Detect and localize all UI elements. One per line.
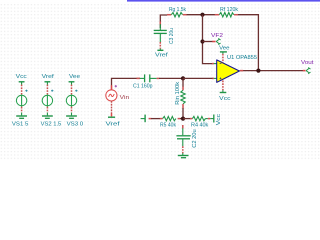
svg-text:R5 40k: R5 40k: [160, 122, 176, 128]
op-amp minus mark: [220, 63, 222, 65]
selection line top: [127, 0, 320, 2]
svg-text:Vout: Vout: [301, 60, 314, 66]
voltage source VS1 body: [16, 95, 26, 105]
svg-text:VS2 1.5: VS2 1.5: [41, 122, 62, 128]
junction top node: [200, 13, 204, 17]
resistor R5: [149, 116, 183, 120]
junction noninverting node: [181, 76, 185, 80]
ground VS3: [66, 115, 77, 117]
op-amp plus mark: [220, 78, 222, 80]
svg-text:Vee: Vee: [69, 74, 80, 80]
capacitor C3: [154, 22, 167, 49]
svg-text:Rin 100k: Rin 100k: [175, 81, 181, 104]
svg-text:C3 20u: C3 20u: [169, 28, 175, 44]
probe VF2: [212, 38, 220, 44]
svg-text:Vin: Vin: [120, 95, 130, 101]
Vee rail tab: [220, 52, 227, 54]
wire top right: [238, 15, 259, 71]
voltage source VS3 body: [66, 95, 76, 105]
resistor R_f: [215, 13, 238, 17]
wire feedback vertical: [203, 15, 213, 64]
svg-text:VS1 5: VS1 5: [12, 122, 29, 128]
junction lower node: [181, 117, 185, 121]
capacitor C2: [176, 125, 190, 153]
Vee rail tab: [69, 81, 75, 83]
terminal bottom of VS2: [46, 107, 48, 113]
Vref rail tab below C3: [157, 49, 163, 51]
wire node to op-amp: [183, 77, 213, 79]
resistor Rin: [181, 78, 185, 118]
capacitor C1: [137, 74, 160, 82]
wire output: [240, 70, 304, 72]
svg-text:Vcc: Vcc: [16, 74, 28, 80]
source VS2: [41, 74, 62, 128]
svg-text:VF2: VF2: [211, 33, 223, 39]
junction output node: [256, 69, 260, 73]
plus mark VS1: [25, 90, 27, 92]
resistor R_g: [167, 13, 187, 17]
plus mark VS2: [51, 90, 53, 92]
source Vin: [106, 85, 117, 116]
svg-text:Rg 1.5k: Rg 1.5k: [169, 7, 186, 13]
terminal top of VS2: [46, 85, 48, 95]
wire C1 to node: [159, 77, 183, 79]
svg-text:VS3 0: VS3 0: [67, 122, 84, 128]
terminal top of VS1: [21, 85, 23, 95]
ground below C2: [178, 153, 189, 158]
source VS1: [12, 74, 29, 128]
junction VF2 node: [200, 39, 204, 43]
op-amp input pins: [212, 64, 217, 79]
ground VS1: [16, 115, 27, 117]
op-amp U1 OPA855: [217, 60, 240, 83]
wire top row: [160, 15, 167, 28]
Vcc rail tab: [19, 81, 25, 83]
wire Vin to C1: [112, 78, 141, 89]
op-amp bottom power pin: [222, 81, 224, 91]
svg-text:Vcc: Vcc: [216, 114, 222, 126]
source VS3: [66, 74, 83, 128]
svg-text:Vref: Vref: [42, 74, 55, 80]
svg-text:R4 40k: R4 40k: [191, 122, 209, 128]
svg-text:Vee: Vee: [219, 45, 229, 51]
svg-text:Vref: Vref: [155, 52, 168, 58]
probe Vout: [303, 68, 311, 74]
svg-text:Rf 120k: Rf 120k: [220, 7, 238, 13]
terminal at op-amp output: [240, 70, 243, 72]
terminal bottom of VS3: [71, 107, 73, 113]
terminal bottom of VS1: [21, 107, 23, 113]
svg-text:Vcc: Vcc: [219, 96, 231, 102]
ground VS2: [42, 115, 53, 117]
Vcc rail tab below op-amp: [220, 90, 227, 92]
Vcc rail tab right of R4: [213, 115, 215, 123]
plus mark VS3: [75, 90, 77, 92]
terminal top of VS3: [71, 85, 73, 95]
wire VF2 stub: [203, 41, 213, 43]
svg-text:C2 20u: C2 20u: [192, 129, 198, 148]
wire top mid: [186, 14, 216, 16]
svg-text:Vref: Vref: [106, 121, 121, 127]
svg-text:C1 160p: C1 160p: [133, 83, 153, 89]
op-amp top power pin: [222, 54, 224, 63]
resistor R4: [183, 116, 214, 120]
rail tab left of R5: [141, 115, 146, 123]
svg-text:U1 OPA855: U1 OPA855: [227, 55, 257, 61]
Vref rail tab: [45, 81, 51, 83]
voltage source VS2 body: [42, 95, 52, 105]
Vref rail tab below Vin: [108, 116, 115, 118]
